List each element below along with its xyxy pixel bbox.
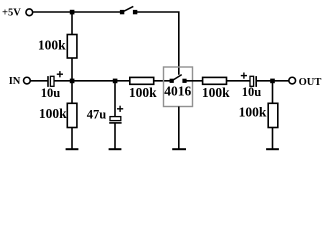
svg-text:47u: 47u	[87, 107, 107, 121]
svg-text:100k: 100k	[239, 104, 267, 119]
svg-text:IN: IN	[9, 76, 21, 87]
ground (C2)	[109, 148, 122, 150]
wire R1 to node B	[71, 58, 73, 81]
junction node B	[70, 79, 75, 84]
svg-text:100k: 100k	[39, 106, 67, 121]
wire IN terminal to C1	[30, 80, 48, 82]
wire R5 to ground	[272, 128, 274, 149]
wire C1 to node B	[54, 80, 72, 82]
wire node D to R5	[272, 81, 274, 104]
junction node D	[270, 79, 275, 84]
junction node A	[70, 10, 75, 15]
node IN terminal	[24, 77, 31, 84]
capacitor C2	[109, 117, 121, 123]
resistor R4	[203, 77, 227, 84]
svg-text:OUT: OUT	[299, 77, 322, 88]
wire node B to R2	[71, 81, 73, 104]
switch U1 internal analog switch	[170, 75, 187, 83]
C3 polarity +	[241, 73, 247, 79]
wire node B to node C	[72, 80, 115, 82]
wire R4 to C3	[227, 80, 251, 82]
ground (R2)	[66, 148, 79, 150]
ground (R5)	[266, 148, 279, 150]
wire node C to C2	[114, 81, 116, 117]
wire C3 to node D	[256, 80, 272, 82]
svg-text:10u: 10u	[41, 86, 61, 100]
ground (U1)	[172, 148, 186, 150]
wire R2 to ground	[71, 128, 73, 149]
wire U1 to ground	[178, 107, 180, 149]
resistor R2	[67, 103, 77, 127]
node +5V terminal	[26, 9, 33, 16]
C1 polarity +	[57, 71, 63, 77]
svg-text:10u: 10u	[242, 85, 262, 99]
wire node A to R1	[71, 12, 73, 35]
resistor R3	[130, 77, 154, 84]
wire U1 switch to R4	[187, 80, 203, 82]
IC U1 4016 body	[164, 67, 193, 107]
wire node A to switch S1	[72, 11, 121, 13]
resistor R5	[268, 103, 278, 127]
wire R3 to U1 switch	[154, 80, 171, 82]
wire S1 to 4016 control input	[137, 12, 179, 75]
resistor R1	[67, 35, 77, 59]
wire node D to OUT terminal	[273, 80, 290, 82]
wire +5V terminal to node A	[33, 11, 72, 13]
svg-text:100k: 100k	[202, 85, 230, 100]
svg-text:100k: 100k	[38, 37, 66, 52]
capacitor C1	[48, 76, 54, 87]
C2 polarity +	[117, 106, 123, 112]
wire node C to R3	[115, 80, 130, 82]
svg-text:+5V: +5V	[2, 8, 21, 19]
switch S1	[120, 6, 137, 14]
node OUT terminal	[289, 77, 296, 84]
capacitor C3	[250, 76, 256, 87]
svg-text:100k: 100k	[129, 85, 157, 100]
wire C2 to ground	[114, 123, 116, 149]
junction node C	[113, 79, 118, 84]
svg-text:4016: 4016	[164, 84, 191, 99]
